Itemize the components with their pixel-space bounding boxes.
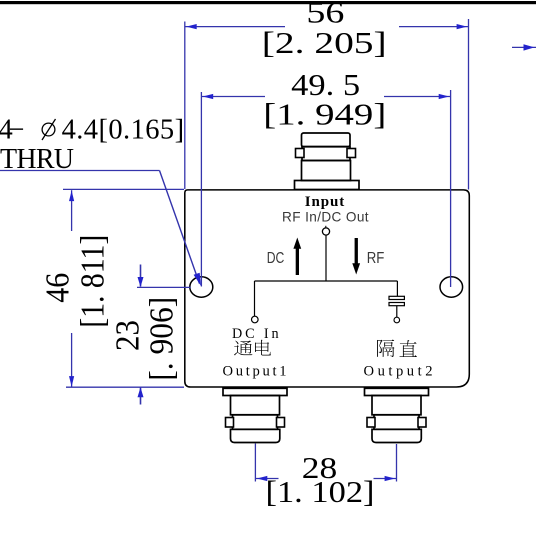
svg-text:4−: 4− (0, 115, 25, 146)
svg-text:[1. 811]: [1. 811] (74, 235, 111, 328)
svg-text:46: 46 (39, 273, 76, 303)
svg-text:[1. 102]: [1. 102] (266, 474, 375, 509)
svg-text:RF In/DC Out: RF In/DC Out (282, 209, 369, 224)
svg-text:23: 23 (110, 320, 147, 351)
svg-text:RF: RF (367, 250, 385, 267)
svg-text:[. 906]: [. 906] (144, 297, 181, 381)
svg-text:[1. 949]: [1. 949] (263, 97, 386, 132)
svg-text:[2. 205]: [2. 205] (262, 25, 387, 60)
svg-text:DC: DC (267, 250, 285, 267)
svg-text:Input: Input (305, 194, 345, 210)
svg-text:4.4[0.165]: 4.4[0.165] (62, 115, 185, 146)
svg-text:THRU: THRU (0, 144, 74, 175)
